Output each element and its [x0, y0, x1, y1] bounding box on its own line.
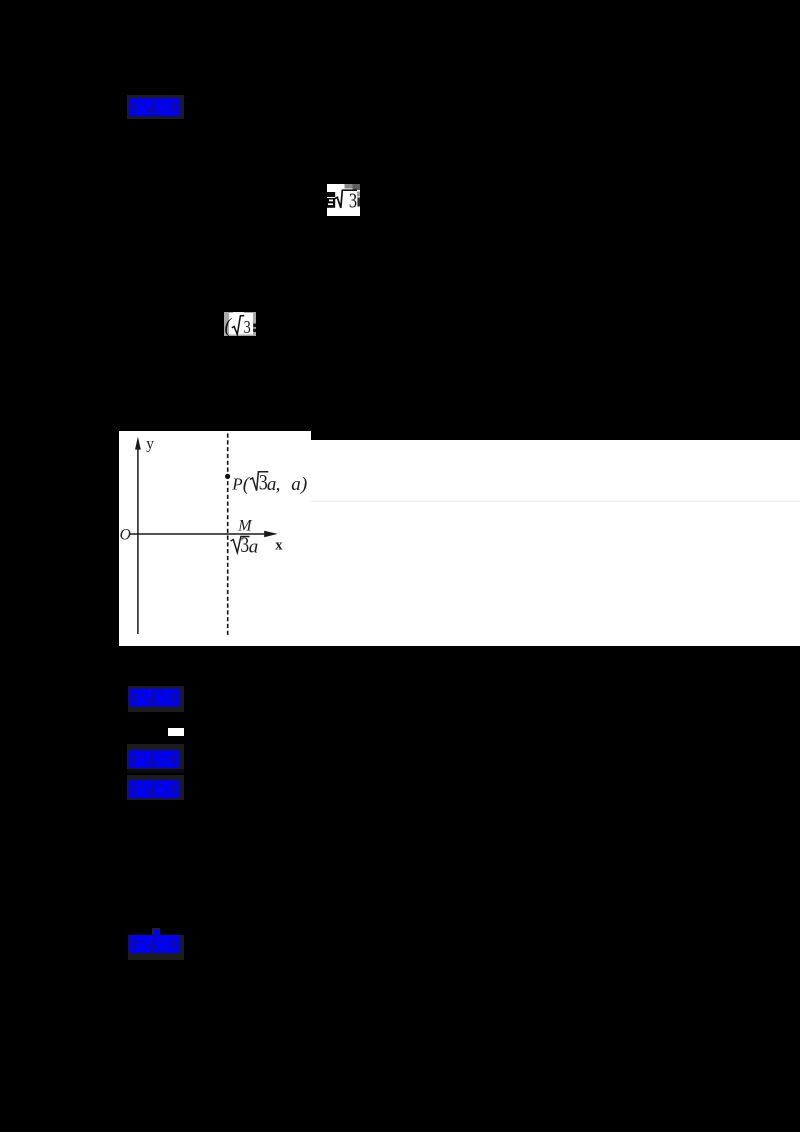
marker 5 (jieda) background	[128, 935, 184, 960]
marker 5 blue text	[130, 935, 181, 953]
right-edge clipped bits	[357, 198, 360, 207]
marker 1 blue text	[130, 98, 181, 116]
y-axis arrowhead	[135, 437, 141, 450]
dashed vertical line	[227, 434, 229, 637]
small white equation rect	[168, 728, 184, 736]
equation image 2 box	[224, 312, 256, 337]
figure white background	[119, 431, 311, 646]
svg-text:,: ,	[276, 474, 281, 495]
sqrt3 a label under axis	[231, 533, 259, 557]
marker 2 (kaodian) background	[128, 686, 184, 712]
svg-text:a: a	[291, 474, 301, 495]
svg-text:M: M	[237, 517, 253, 534]
marker 1 background	[127, 95, 184, 119]
svg-text:a: a	[249, 536, 258, 557]
svg-text:y: y	[146, 436, 154, 453]
left-edge clipped text bars	[327, 192, 335, 197]
right white band	[311, 440, 800, 646]
x-axis	[130, 533, 266, 535]
marker 5 top blue bump	[154, 930, 160, 936]
svg-text:3: 3	[244, 319, 251, 338]
radical sign of sqrt3	[335, 190, 357, 208]
x-axis arrowhead	[264, 531, 277, 537]
marker 2 blue text	[130, 689, 181, 707]
marker 4 (fenxi) background	[127, 775, 184, 800]
equation image 1 white box	[327, 184, 360, 216]
marker 5 top tab	[152, 928, 160, 935]
marker 3 blue text	[129, 750, 180, 768]
svg-text:x: x	[275, 537, 283, 553]
right-edge clipped dots	[253, 324, 256, 328]
faint horizontal stripe in right band	[311, 501, 800, 503]
P(sqrt3 a, a) label	[231, 471, 307, 495]
svg-text:): )	[300, 474, 307, 495]
point P dot	[225, 474, 230, 479]
svg-text:3: 3	[349, 190, 357, 213]
y-axis	[137, 446, 139, 634]
faint streak under marker 3	[127, 769, 184, 773]
marker 4 blue text	[129, 780, 180, 798]
radical sign	[232, 316, 244, 335]
marker 3 (zhuanti) background	[127, 744, 184, 769]
svg-text:P: P	[231, 475, 242, 494]
svg-text:O: O	[120, 527, 131, 544]
